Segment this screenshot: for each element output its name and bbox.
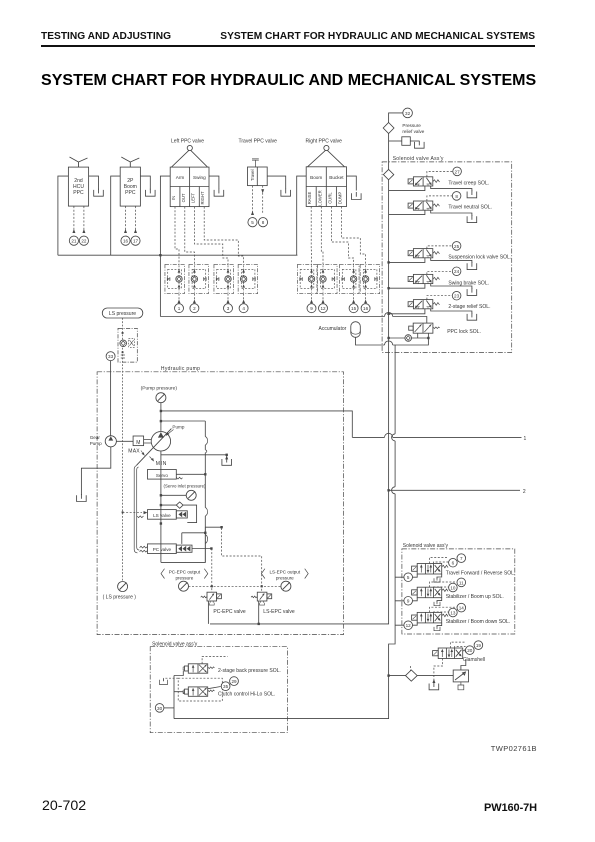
svg-text:12: 12 [406, 623, 412, 628]
svg-text:PC-EPC output: PC-EPC output [169, 569, 201, 574]
svg-text:DUMP: DUMP [338, 192, 343, 205]
svg-text:CURL: CURL [327, 192, 332, 204]
svg-text:1: 1 [178, 306, 181, 311]
svg-text:15: 15 [351, 306, 357, 311]
svg-text:PC-EPC valve: PC-EPC valve [213, 609, 245, 615]
svg-text:Solenoid valve ass'y: Solenoid valve ass'y [403, 543, 449, 549]
svg-text:MAX: MAX [128, 449, 140, 455]
svg-text:Travel PPC valve: Travel PPC valve [239, 139, 278, 145]
svg-text:29: 29 [231, 679, 237, 684]
svg-text:Bucket: Bucket [329, 175, 344, 180]
svg-text:35: 35 [223, 684, 229, 689]
svg-text:Travel Forward / Reverse SOL.: Travel Forward / Reverse SOL. [446, 570, 516, 576]
svg-text:Servo: Servo [156, 473, 168, 478]
svg-text:Swing: Swing [193, 175, 206, 180]
svg-text:8: 8 [455, 194, 458, 199]
svg-text:relief valve: relief valve [402, 129, 424, 134]
svg-text:Travel: Travel [250, 169, 255, 181]
svg-text:Pressure: Pressure [402, 123, 421, 128]
svg-text:PC valve: PC valve [153, 547, 172, 552]
svg-text:PPC: PPC [125, 190, 136, 196]
svg-text:Solenoid valve Ass'y: Solenoid valve Ass'y [393, 156, 444, 162]
svg-text:Gear: Gear [90, 435, 101, 440]
svg-text:23: 23 [454, 294, 460, 299]
svg-text:Stabilizer / Boom up SOL.: Stabilizer / Boom up SOL. [446, 594, 504, 600]
svg-text:(Pump pressure): (Pump pressure) [141, 385, 178, 391]
svg-text:(Servo inlet pressure): (Servo inlet pressure) [164, 484, 207, 489]
svg-text:Swing brake SOL.: Swing brake SOL. [448, 280, 489, 286]
svg-text:3: 3 [227, 306, 230, 311]
svg-text:30: 30 [157, 706, 163, 711]
svg-text:LEFT: LEFT [191, 192, 196, 203]
svg-text:Hydraulic pump: Hydraulic pump [161, 366, 200, 372]
svg-text:1: 1 [524, 436, 527, 442]
svg-text:25: 25 [454, 244, 460, 249]
svg-text:PPC lock SOL.: PPC lock SOL. [447, 329, 481, 335]
svg-text:14: 14 [459, 606, 465, 611]
svg-text:21: 21 [71, 239, 77, 244]
svg-text:Boom: Boom [310, 175, 322, 180]
svg-text:8: 8 [262, 220, 265, 225]
svg-text:Accumulator: Accumulator [319, 326, 347, 332]
svg-text:Arm: Arm [176, 175, 185, 180]
svg-text:Clutch control Hi-Lo SOL.: Clutch control Hi-Lo SOL. [218, 691, 275, 697]
svg-text:10: 10 [450, 585, 456, 590]
svg-text:LS-EPC output: LS-EPC output [269, 569, 300, 574]
svg-text:19: 19 [476, 643, 482, 648]
svg-text:11: 11 [459, 580, 464, 585]
svg-text:6: 6 [452, 561, 455, 566]
svg-text:LS pressure: LS pressure [109, 311, 136, 317]
svg-text:M: M [136, 440, 140, 446]
svg-text:13: 13 [450, 610, 456, 615]
svg-text:Travel neutral SOL.: Travel neutral SOL. [448, 205, 492, 211]
svg-text:24: 24 [454, 269, 460, 274]
svg-text:Pump: Pump [90, 441, 102, 446]
svg-text:LOWER: LOWER [317, 190, 322, 205]
svg-text:IN: IN [171, 196, 176, 200]
svg-text:RAISE: RAISE [307, 192, 312, 205]
svg-text:RIGHT: RIGHT [200, 191, 205, 204]
svg-text:Pump: Pump [172, 425, 184, 430]
svg-text:TWP02761B: TWP02761B [491, 744, 537, 753]
svg-text:5: 5 [407, 575, 410, 580]
svg-text:Travel creep SOL.: Travel creep SOL. [448, 180, 489, 186]
svg-text:2: 2 [523, 489, 526, 495]
svg-text:pressure: pressure [276, 575, 294, 580]
svg-text:17: 17 [133, 239, 139, 244]
svg-text:Clamshell: Clamshell [463, 657, 485, 663]
svg-text:33: 33 [108, 354, 114, 359]
svg-text:16: 16 [123, 239, 129, 244]
svg-text:Right PPC valve: Right PPC valve [306, 139, 343, 145]
svg-text:16: 16 [363, 306, 369, 311]
svg-text:pressure: pressure [175, 575, 193, 580]
svg-text:PPC: PPC [73, 190, 84, 196]
svg-text:MIN: MIN [156, 461, 167, 467]
svg-text:LS valve: LS valve [153, 513, 171, 518]
svg-text:Left PPC valve: Left PPC valve [171, 139, 204, 145]
svg-text:2-stage back pressure SOL.: 2-stage back pressure SOL. [218, 668, 281, 674]
svg-text:2-stage relief SOL.: 2-stage relief SOL. [448, 304, 490, 310]
svg-text:5: 5 [251, 220, 254, 225]
svg-text:9: 9 [310, 306, 313, 311]
svg-text:Stabilizer / Boom down SOL.: Stabilizer / Boom down SOL. [446, 619, 511, 625]
svg-text:2: 2 [193, 306, 196, 311]
svg-text:9: 9 [407, 599, 410, 604]
svg-text:OUT: OUT [181, 193, 186, 202]
svg-text:( LS pressure ): ( LS pressure ) [103, 594, 137, 600]
svg-text:12: 12 [320, 306, 326, 311]
svg-text:Suspension lock valve SOL.: Suspension lock valve SOL. [448, 254, 511, 260]
svg-text:27: 27 [455, 169, 461, 174]
svg-text:32: 32 [405, 111, 411, 116]
svg-text:7: 7 [460, 556, 463, 561]
svg-text:20: 20 [467, 648, 473, 653]
svg-text:LS-EPC valve: LS-EPC valve [263, 609, 295, 615]
svg-text:22: 22 [81, 239, 87, 244]
svg-text:4: 4 [242, 306, 245, 311]
